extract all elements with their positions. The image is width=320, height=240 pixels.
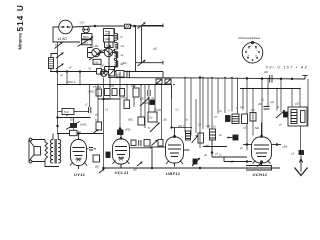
svg-text:1kΩ: 1kΩ [206,126,210,128]
NTC arrow [78,37,93,47]
svg-text:2Ω: 2Ω [154,110,157,112]
svg-text:1MΩ: 1MΩ [128,120,133,122]
svg-text:5n400: 5n400 [80,125,87,127]
svg-text:sw: sw [121,55,124,57]
anode wire tube2 [130,148,153,168]
svg-text:µ50n: µ50n [122,63,128,65]
core [55,139,56,164]
tube UY11 [71,140,87,166]
svg-text:50.Ω: 50.Ω [64,112,69,114]
caps right [264,107,270,110]
wire lamp left loop [53,27,80,42]
resistor 800 [82,34,93,40]
arrow over lamps [89,46,111,60]
svg-text:4,2V: 4,2V [80,23,85,25]
dial lamp [59,20,73,34]
socket pinout [239,36,263,63]
svg-text:lm: lm [121,37,124,39]
wire top rail [72,26,163,27]
svg-text:NTC: NTC [84,43,89,45]
svg-text:Für U 157 + AZ: Für U 157 + AZ [266,66,308,70]
svg-text:µF50n Ω: µF50n Ω [67,82,76,84]
svg-text:5070: 5070 [109,86,115,88]
svg-text:1Ω: 1Ω [198,125,201,127]
svg-text:C084: C084 [105,39,111,41]
loop near tube4 [246,166,272,171]
svg-text:µA: µA [215,153,218,156]
right-mid cluster above tube3 [186,131,191,140]
field coil zigzag [45,140,48,162]
antenna network: resistor 300 [49,58,54,69]
cluster C6 [250,113,256,122]
right winding [58,140,61,164]
tube4 grid wires [243,144,252,146]
svg-text:µΩ: µΩ [204,155,207,157]
tube UCL11 [113,139,130,164]
tube UBF11 [166,137,184,163]
svg-text:0,05: 0,05 [94,62,99,64]
components between T1 T2 [89,148,93,151]
svg-text:UY11: UY11 [74,172,86,177]
row between T2 T3 [131,140,136,146]
trimmer B [165,79,171,84]
tuning cap frame [141,25,143,62]
svg-text:UCL11: UCL11 [115,170,130,175]
left mid band [62,109,74,115]
tube3 anode wiring [211,140,213,157]
svg-text:Minerva: Minerva [18,33,23,50]
svg-text:4Ω3: 4Ω3 [106,45,111,47]
bottom long wire [104,167,281,169]
svg-text:948Ω: 948Ω [96,87,102,89]
speaker [29,140,34,161]
vertical drops left/mid [58,42,309,169]
svg-text:1740Ω: 1740Ω [88,92,95,94]
trimmer A [156,79,162,84]
hatched box top rail [125,24,131,28]
ground [299,151,304,155]
rail R2 [108,78,305,79]
grid wire tube3 left [150,146,166,148]
rail R1 [50,71,163,73]
middle band row1 boxes [96,89,102,96]
svg-text:514 U: 514 U [16,4,25,31]
junction wire y99 [98,98,120,100]
pot mid [192,159,200,167]
IF transformer [288,107,307,126]
svg-text:µm: µm [214,117,217,119]
svg-text:41,6Ω: 41,6Ω [58,37,68,41]
box Abst [104,29,115,36]
svg-text:5n400: 5n400 [143,103,150,105]
micro labels [60,69,300,164]
band line [108,31,110,72]
svg-text:µ50n: µ50n [283,147,289,149]
right header rail [240,88,300,90]
svg-text:g: g [257,50,258,52]
svg-text:7Ω: 7Ω [124,98,127,100]
svg-text:Röhrenanschlüsse: Röhrenanschlüsse [239,36,261,40]
rail R3 [57,84,172,86]
title Minerva 514 U [16,4,25,49]
pot arrow at lamp [55,43,63,49]
junction dots rails [66,77,301,169]
svg-text:mw: mw [121,46,125,48]
row4 [119,128,121,130]
svg-text:17Ω: 17Ω [251,110,256,112]
box 0,05 [93,59,101,64]
lamp 3 [104,48,112,56]
svg-text:17µ: 17µ [149,118,154,120]
tube1 top line [57,133,103,135]
box 4R3 [105,42,114,48]
svg-text:800Ω: 800Ω [83,37,89,39]
svg-text:5kΩ: 5kΩ [255,128,259,130]
TRM cluster on rail [97,69,102,75]
row2 [124,100,130,109]
box C084 [104,36,115,43]
tube UCH11 [252,137,272,163]
gang line [135,26,137,72]
svg-text:UCH11: UCH11 [253,172,268,177]
coil windings [114,29,116,34]
cap on R2 [270,75,272,83]
svg-text:k: k [255,56,256,58]
fuse [83,26,90,33]
lamp 2 [92,48,100,56]
lamp loop wires [88,48,117,72]
svg-text:UBF11: UBF11 [166,171,181,176]
tube3 top cap [174,136,176,138]
svg-text:µF50: µF50 [125,130,131,132]
anode wire tube3 [184,149,190,151]
output transformer left winding [50,140,53,164]
